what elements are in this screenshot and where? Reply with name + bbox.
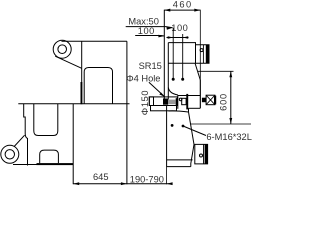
lug A2 lower pin boss outer circle [1,145,19,163]
dim 190-790 right outside arrow [167,182,173,185]
bolt pattern dot left [171,124,174,127]
washer bar [176,98,177,106]
slot in bracket body (rounded top) [84,68,112,105]
dim 645 left arrow [73,182,79,185]
svg-text:460: 460 [173,0,193,9]
dim 600 top arrow [229,71,232,77]
waist top line [178,95,201,97]
profile slant below box [195,63,200,80]
clamp bolt shaft left [168,100,175,105]
small hole in bracket box [200,49,203,52]
leader 6-M16 [183,126,206,136]
leader 100 left underline and arrow [135,35,164,38]
svg-text:190-790: 190-790 [130,175,164,185]
tangent line to lower lug [14,135,24,146]
dim 600 top extension [198,70,234,72]
foot inner double edge [205,144,208,164]
leader Max:50 underline and arrow [126,27,173,28]
svg-text:600: 600 [219,93,229,111]
waist step vertical [188,108,190,112]
bracket box inner vertical [202,45,204,64]
left plate edge with jog [24,104,28,166]
wire bracket body left edge thick lower part [81,82,83,104]
baseline under lower lug [13,164,37,166]
bracket box top right [196,45,210,64]
clamp arm lower plate [151,106,177,111]
clamp thick double edge [186,94,188,110]
waist bottom line [188,107,200,109]
shelf line under top section [168,62,195,64]
lug A2 lower pin boss inner circle [5,150,14,159]
clamp pin circle [179,98,182,101]
bolt dot 1 [172,78,175,81]
clamp shaft right small rect [182,98,186,104]
svg-text:100: 100 [138,26,155,36]
wire top edge of bracket body [62,40,127,42]
thick base bar [37,163,74,165]
upper right body edge A (with 460 extension) [163,10,165,100]
right side bolt dark nut [202,98,206,103]
svg-text:SR15: SR15 [139,61,162,71]
foot small hole [200,154,203,157]
dim 645 right arrow / 190-790 left outside arrow [121,182,127,185]
leader Max:50 arrowhead [166,27,172,30]
lower body right slant [189,112,195,144]
lower body left extension to dim [166,167,168,184]
waist to lower left curve [169,111,189,112]
svg-text:645: 645 [93,172,109,182]
clamp arm dark nut [163,99,168,105]
leader Phi4 arrowhead [159,93,165,97]
dim 600 vertical line [230,71,232,124]
leader Phi4 hole [149,82,165,97]
dim 460 right arrow [194,9,200,12]
wire bracket body left edge [81,41,83,82]
bracket box inner double edge [206,45,209,64]
clamp arm left bolt head dark [149,97,153,106]
dim 100 right right arrowhead [183,36,189,39]
vertical plate edge x=73 down to dimension [72,104,74,184]
wire lug tangent diagonal [55,56,81,68]
bottom edge of lower body [167,166,191,168]
right bolt cross line 2 [206,95,215,105]
dim 460 left arrow [164,9,170,12]
dim 460 line [164,9,200,11]
foot plate quadrilateral [195,144,208,164]
svg-text:Φ4 Hole: Φ4 Hole [126,74,160,84]
dim 100 right line with outside arrows [167,37,189,39]
step line upper [167,159,193,161]
upper right body edge B [167,43,169,100]
body right edge to waist [199,80,201,108]
U slot in left plate [34,104,58,136]
curve from edge B to bracket top [168,88,178,95]
lower body left edge [166,105,168,167]
svg-text:100: 100 [171,23,188,33]
top edge right section [168,43,195,45]
bump rounded block on base [40,150,59,163]
bolt dot 2 [181,78,184,81]
dim 600 bottom arrow [229,118,232,124]
svg-text:Φ150: Φ150 [140,90,150,115]
bolt centerline 2 with dot [182,34,184,78]
leader 100 left arrowhead [158,35,164,38]
clamp arm rectangle [149,97,177,106]
dim 600 bottom extension [191,123,251,125]
chisel left slant down [191,144,194,166]
dim 645 + 190-790 shared dimension line [73,183,170,185]
right bolt end cap [214,96,216,105]
wire bracket body right edge (also extension for dims) [126,41,128,184]
right bolt cross line 1 [206,95,215,105]
lug A1 upper pin boss inner circle [58,45,67,54]
bolt centerline 1 with dot [172,28,174,78]
lug A1 upper pin boss outer circle [53,40,71,58]
dim 100 right left arrowhead [168,36,174,39]
clamp bracket vertical [177,95,179,109]
wire horizontal plate line y=103.8 [18,103,129,105]
foot inner line [203,144,205,164]
centerline through hole [199,10,201,108]
bolt pattern dot right [182,125,185,128]
right side bolt shaft with cross [206,95,215,105]
svg-text:6-M16*32L: 6-M16*32L [206,132,251,142]
